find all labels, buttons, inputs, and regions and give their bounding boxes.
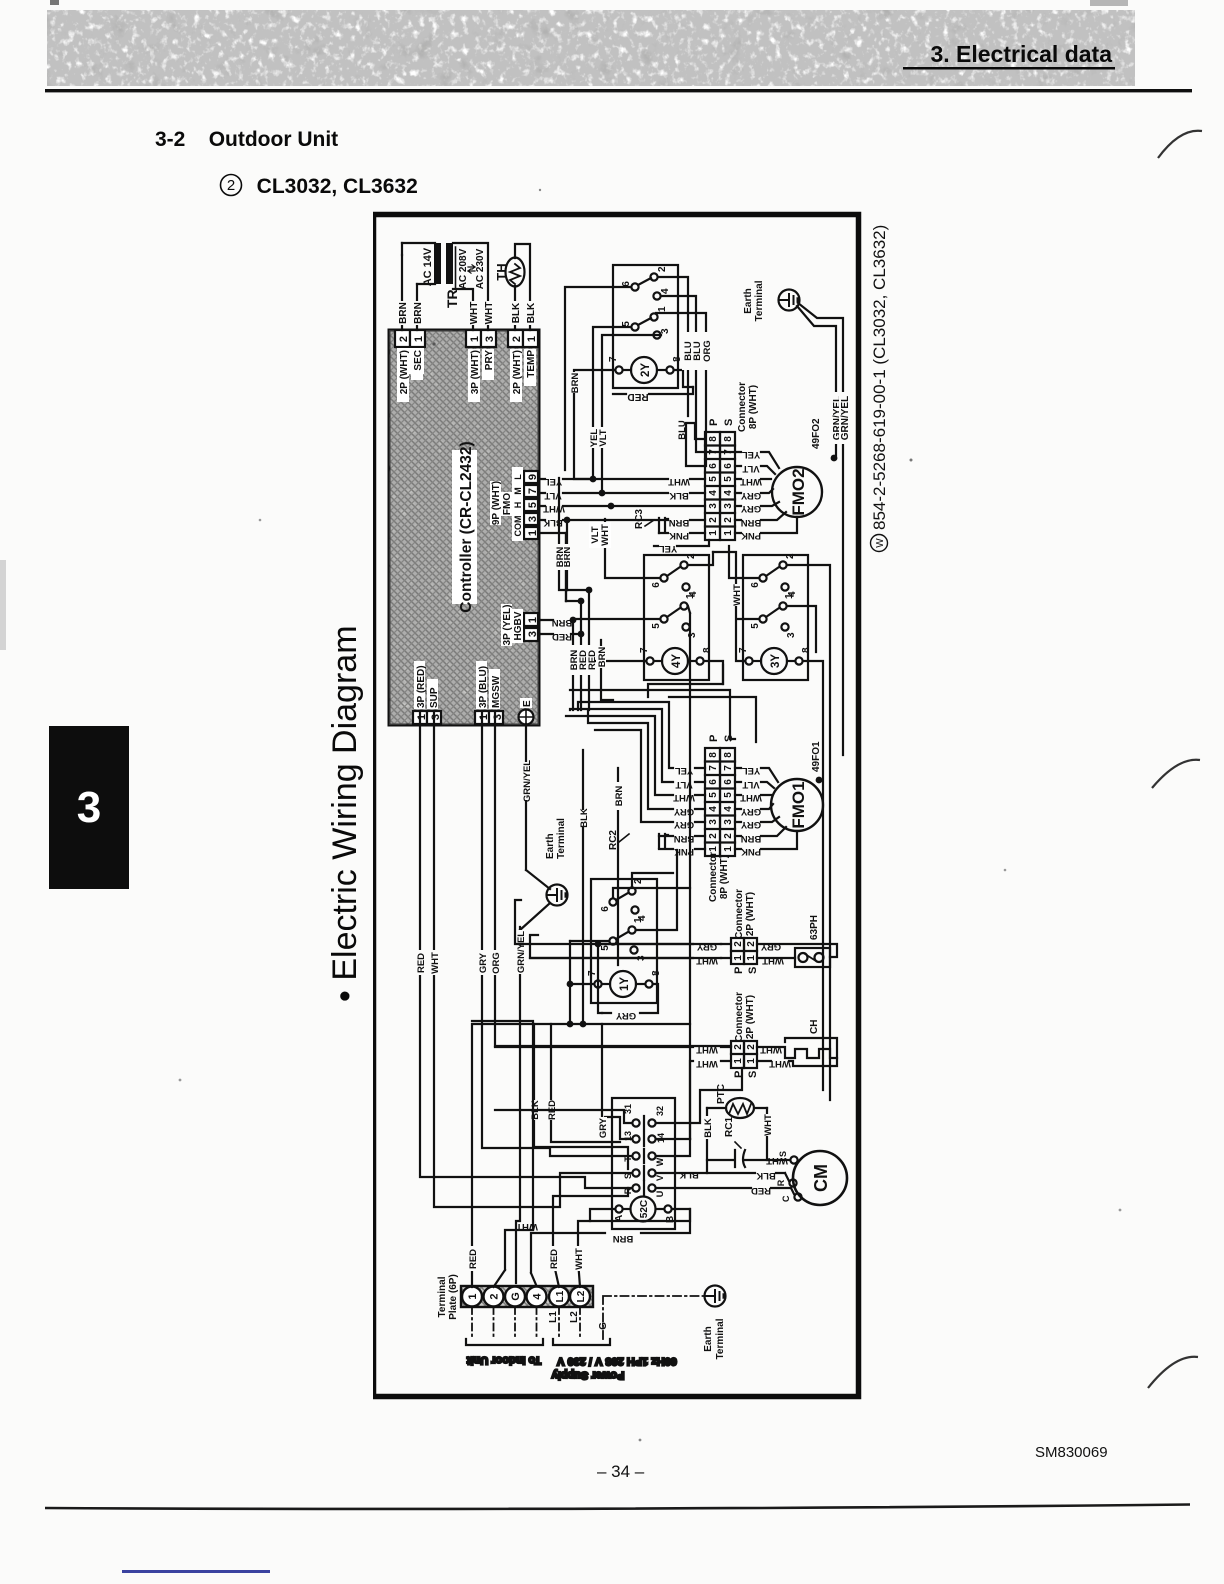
earth terminal (top right) [743,280,800,321]
terminal E on controller [519,698,534,725]
label YEL S7 [742,449,761,460]
pressure switch 63PH [757,915,837,967]
black chapter tab [49,726,129,889]
label YEL S7 [742,765,761,776]
label YEL P7 [675,765,694,776]
label PNK S1 [741,846,761,857]
wire GRY below 1Y coil [602,984,658,1021]
wire 4Y coil t8 return [704,661,723,684]
vertical run 9P pin1 (COM) [539,533,566,601]
label WHT S5 [740,476,762,487]
wire GRN/YEL rail a [797,306,843,458]
label GRY S4 [740,806,761,817]
relay 1Y coil [587,970,662,997]
connector PRY 3P(WHT) pins 1,3 [466,330,496,402]
label GRY P3 [673,819,694,830]
wire WHT rail from SUP3 [429,711,632,1207]
wire WHT pin1 PRY [467,301,480,325]
relay 3Y coil [738,647,812,674]
wire YEL (FMO relay) [654,540,709,554]
label GRY S3 [740,819,761,830]
wire WHT to CM S [785,1159,790,1161]
wire BLU/BLU/ORG bundle from 2Y contacts [565,277,735,470]
wires FMO1 P-side up [566,665,723,849]
vertical bullet title [326,612,710,1002]
relay 3Y box [743,555,808,680]
vertical run 9P pin9 to FMO2 P5 (YEL/WHT) [539,476,668,487]
contactor 52C box [612,1098,675,1229]
wire BLK to CM R [707,1170,789,1181]
wire cross run a [570,690,735,739]
wire VLT WHT crossing labels [589,519,713,578]
wire YEL rail from 2Y 5 [587,327,631,479]
wire 1Y coil t7 to riser [567,981,594,1024]
terminal plate (6P) [437,1274,593,1320]
wire HGBV pin1 BRN down [538,617,576,624]
wires FMO2 S-side to motor [735,452,797,533]
wire 3Y output rail b [787,565,830,1100]
wire BRN horizontal labels mid [554,478,573,601]
wire WHT between 4Y and 3Y [713,552,759,661]
connector 8P(WHT) for FMO2 [705,382,759,540]
wire 63PH P2 riser [595,941,721,948]
relay 4Y contact 6-2-4 [651,553,699,597]
wire ORG rail from MGSW3 [490,711,731,1046]
vertical run 9P pin3 (BLK) [539,517,659,590]
relay 1Y box [591,879,657,1003]
label BLU P6 [677,420,688,440]
wire WHT PTC-S rail [762,1108,788,1166]
label VLT P6 [675,779,692,790]
wire 63PH P-side [515,900,731,958]
footer [597,1462,644,1482]
relay 1Y contact 5-1-3 [600,917,647,961]
wire cross run b [669,697,756,742]
wire WHT pin3 PRY [482,301,495,325]
label BRN P2 [674,833,695,844]
label PNK P1 [669,530,689,541]
fan motor FMO1 [771,741,823,831]
relay 2Y box [613,265,678,388]
label VLT S6 [742,463,759,474]
contactor 52C pole T-W [623,1149,665,1166]
contactor 52C pole R-U [623,1181,665,1197]
wire earth to terminal G (GRN/YEL) [515,903,550,1283]
capacitor RC2 [608,830,668,850]
label GRY S4 [740,490,761,501]
wires FMO1 S-side to motor [735,768,797,849]
relay 3Y contact 6-2-4 [750,553,798,597]
wire RED from 2Y coil 7 [613,387,693,402]
wire CH P-side [495,1047,731,1139]
connector SUP 3P(RED) pins 1,3 [413,661,442,724]
wire GRN/YEL rail b [798,303,851,755]
label VLT S6 [742,779,759,790]
label GRY P4 [673,806,694,817]
connector SEC 2P(WHT) pins 2,1 [395,330,425,402]
wire bundle BRN/RED/RED labels [566,587,660,710]
wire BRN label right of HGBV [596,640,613,700]
contactor 52C coil [614,1197,676,1224]
wire BRN rail from 2Y 7 [569,370,615,479]
label WHT P5 [668,476,690,487]
wire HGBV pin3 RED down [538,631,584,638]
wire WHT CH P labels [696,1044,718,1069]
section headings [155,128,338,152]
wire BRN from 52C B to terminal 4 [531,1209,690,1287]
earth terminal (bottom) [703,1286,726,1360]
wire BRN vertical pair labels [540,617,581,642]
relay 2Y contact 5-1-3 [621,306,671,339]
crankcase heater CH [757,1020,837,1066]
wire BLK rail to 52C [529,1024,628,1169]
label WHT S5 [740,792,762,803]
contactor 52C pole S-V [623,1166,665,1181]
label PNK S1 [741,530,761,541]
wire 1Y contact feeds [570,850,690,984]
bracket Power Supply [551,1339,677,1381]
right edge scan artifacts [1140,0,1224,1584]
wire WHT CH S1 [769,1058,791,1069]
dash-dot earth run from G [603,1296,705,1339]
wire L2 WHT [573,1209,690,1287]
transformer TR [402,243,488,330]
wire aux 31/32 [495,1068,742,1123]
wire BLK rail FMO1 to riser [578,750,590,1027]
wire RED terminal1 riser [467,1021,690,1287]
wire BRN pin2 SEC [396,301,409,325]
wire RED rail from SUP1 [415,711,632,1188]
label PNK P1 [674,846,694,857]
relay 4Y coil [639,647,713,674]
capacitor RC3 [634,509,668,533]
wire BLK pin2 TEMP [509,301,522,325]
header textured band [0,0,1224,110]
wire BLK PTC rail [656,1108,714,1180]
part number line [870,225,889,552]
wire 1Y t8 GRY out [598,944,602,1013]
wire WHT terminal2 [472,1021,538,1287]
label GRY S3 [740,503,761,514]
connector MGSW 3P(BLU) pins 1,3 [475,661,504,724]
wire WHT CH S2 [760,1044,782,1055]
connector HGBV 3P(YEL) pins 3,1 [501,604,539,646]
contactor 52C aux 31-32 [623,1104,665,1130]
label BLK P4 [669,490,689,501]
fan motor FMO2 [772,418,837,517]
wire E to earth (GRN/YEL) [521,724,550,889]
wire 3Y contact feeds [729,546,816,652]
wire BRN from 2Y coil 8 [674,370,693,387]
wires FMO2 P-side up [659,423,705,533]
dashed stubs below terminals [472,1307,580,1340]
wire VLT rail from 2Y 1 [598,335,661,493]
wire GRY rail from MGSW1 [477,711,632,1156]
wire W output [656,1139,690,1156]
wire L1 RED [548,1188,628,1287]
wire BRN pin1 SEC [411,301,424,325]
label BRN S2 [741,517,762,528]
thermistor PTC [707,1084,767,1118]
relay 4Y box [644,555,709,680]
label WHT P5 [673,792,695,803]
wire GRY 13 to terminal1 riser [597,1024,632,1139]
vertical run 9P pin7 to FMO2 P4 (VLT/BLK) [539,490,668,501]
relay 1Y contact 6-2-4 [600,878,648,921]
wire WHT 63PH [762,955,784,966]
earth terminal (middle) [545,818,568,906]
label BRN S2 [741,833,762,844]
connector TEMP 2P(WHT) pins 2,1 [508,330,538,402]
wire RED to CM C [656,1185,794,1196]
relay 4Y contact 5-1-3 [651,593,698,638]
connector 2P(WHT) for 63PH [731,889,759,974]
wire RED rail to 52C [546,1024,620,1142]
wire BRN rail FMO1 to 1Y [613,768,625,965]
wire 3Y output rail a [803,661,823,1090]
connector 8P(WHT) for FMO1 [705,735,735,902]
connector FMO 9P(WHT) pins 1,3,5,7,9 [490,467,539,541]
wire GRY 63PH [760,941,781,952]
outer frame [374,215,859,1397]
vertical run 9P pin5 to FMO2 P3 (WHT) [539,503,705,514]
label BRN P2 [669,517,690,528]
relay 2Y coil [608,356,683,383]
controller U1 (CR-CL2432) [389,330,539,725]
labels L1 L2 below plate [548,1311,609,1330]
relay 3Y contact 5-1-3 [750,593,797,638]
wire 63PH P1 riser [530,957,721,959]
capacitor RC1 [707,1117,767,1167]
wire 4Y coil t7 feed [586,658,646,665]
wire bus portrait-x690 [688,606,690,1139]
bracket To Indoor Unit [466,1339,543,1366]
thermistor TH [494,244,530,330]
compressor motor CM [776,1151,847,1205]
contactor 52C aux 13-14 [623,1131,666,1146]
wire WHT 63PH P label [696,941,718,966]
wire BLK pin1 TEMP [524,301,537,325]
relay 2Y contact 6-2-4 [621,266,671,300]
connector 2P(WHT) for CH [731,992,759,1078]
wire 52C coil A feed [590,1209,615,1221]
wire aux 14 to CH P1 [656,1138,690,1140]
